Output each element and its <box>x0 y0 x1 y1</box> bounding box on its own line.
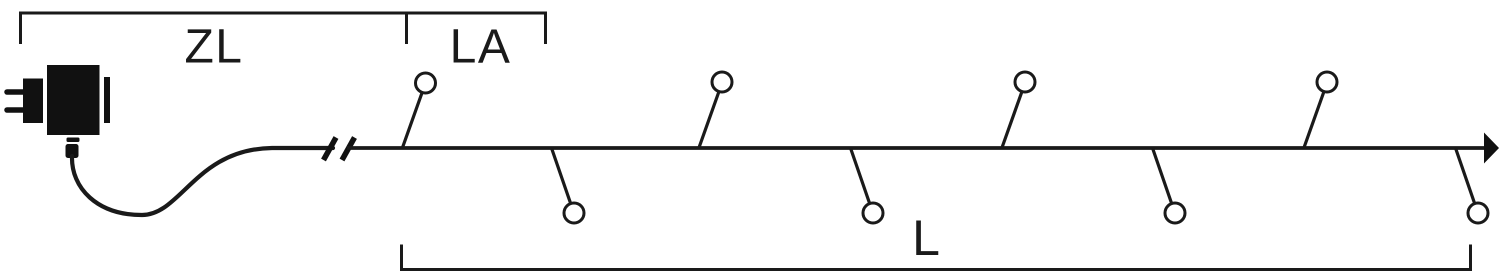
lamp 1 bulb (up) <box>416 73 436 93</box>
svg-text:L: L <box>912 210 940 266</box>
lamp 7 stem (up) <box>1304 90 1325 149</box>
lamp 4 stem (down) <box>851 148 871 206</box>
cord from adapter (S-curve) <box>72 148 333 215</box>
power adapter: strain relief <box>66 144 79 158</box>
lamp 8 bulb (down) <box>1468 203 1488 223</box>
power adapter: main body <box>47 65 100 135</box>
dimension bracket L (bottom) <box>402 245 1471 270</box>
lamp 8 stem (down) <box>1456 148 1476 206</box>
lamp 3 bulb (up) <box>712 72 732 92</box>
tick between ZL and LA <box>405 14 408 44</box>
lamp 6 bulb (down) <box>1165 203 1185 223</box>
power adapter: cord nub <box>67 138 80 143</box>
lamp 3 stem (up) <box>699 90 720 149</box>
lamp 2 bulb (down) <box>564 203 584 223</box>
main string wire <box>347 146 1486 150</box>
cable break symbol slash 2 <box>342 138 355 161</box>
power adapter: plug block <box>23 79 43 124</box>
svg-text:ZL: ZL <box>184 21 243 74</box>
lamp 5 bulb (up) <box>1015 72 1035 92</box>
lamp 5 stem (up) <box>1002 90 1023 149</box>
lamp 4 bulb (down) <box>863 203 883 223</box>
lamp 1 stem (up) <box>402 90 423 149</box>
svg-text:LA: LA <box>450 21 512 74</box>
lamp 2 stem (down) <box>552 148 572 206</box>
lamp 7 bulb (up) <box>1317 72 1337 92</box>
cable break symbol slash 1 <box>324 138 337 161</box>
power adapter: mains prong lower <box>7 107 28 113</box>
power adapter: right tab <box>104 77 110 123</box>
arrow head at wire end <box>1484 133 1499 164</box>
dimension bracket ZL+LA (top) <box>21 13 546 44</box>
lamp 6 stem (down) <box>1153 148 1173 206</box>
power adapter: mains prong upper <box>7 89 28 95</box>
